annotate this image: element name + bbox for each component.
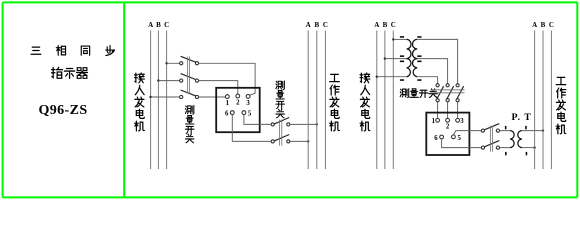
measuring switch S4 (2-pole knife) contacts [481, 129, 499, 149]
wire: S3 poles into box U2 [438, 102, 458, 118]
wire: bus A to T1 primary bottom [377, 76, 407, 78]
wire: terminal 5 to S2 top [232, 115, 270, 142]
measuring switch S2 (2-pole knife) contacts [271, 123, 290, 143]
svg-text:B: B [541, 21, 546, 29]
U1 terminals 6 5 [230, 111, 245, 115]
U2 terminals 1 2 3 [436, 118, 460, 122]
svg-text:3: 3 [460, 118, 464, 125]
switch S1 contacts [180, 62, 199, 99]
synchro indicator box U2 [426, 113, 469, 155]
svg-text:6: 6 [225, 110, 229, 117]
svg-text:B: B [314, 21, 319, 29]
svg-text:C: C [549, 21, 554, 29]
wire: S2 top row to bus B [291, 124, 317, 141]
svg-text:2: 2 [236, 99, 240, 106]
measuring switch S3 (3-pole, vertical) contacts [436, 84, 459, 102]
S2 gang link [280, 120, 282, 146]
wire: terminal 6 to S2 bottom [232, 115, 270, 142]
wire: PT primary bottom to bus A [522, 147, 535, 149]
wire: S1 row1 to terminal 3 [199, 63, 256, 97]
node taps (junction dots) [149, 62, 167, 98]
wire: U2 terminal 5 to S4 top [442, 131, 481, 148]
svg-text:C: C [391, 21, 396, 29]
left bus lines (incoming generator) [377, 31, 394, 170]
wire: taps to switch left contacts [151, 63, 180, 97]
junction dots on right bus [307, 123, 318, 142]
node taps for transformer T1 [376, 38, 395, 78]
transformer T1 primary winding P2 (B-A) [407, 59, 411, 77]
wire: S2 bottom row to bus A [291, 140, 309, 142]
right bus lines (working generator) [308, 31, 325, 170]
switch S1 blades [181, 56, 196, 96]
svg-text:1: 1 [432, 118, 436, 125]
wire: S4 top to PT secondary [500, 131, 510, 148]
potential transformer PT primary winding [518, 131, 522, 148]
svg-text:B: B [383, 21, 388, 29]
svg-text:C: C [323, 21, 328, 29]
S4 blades [484, 124, 499, 147]
vertical label 接入发电机 (incoming generator) [135, 73, 145, 131]
vertical label 測量开关 (measuring switch) under S1 [185, 105, 194, 142]
svg-text:Q96-ZS: Q96-ZS [38, 103, 87, 118]
svg-text:B: B [156, 21, 161, 29]
title text: 三相同步 [31, 46, 114, 56]
U1 terminals 1 2 3 [225, 94, 250, 98]
svg-text:3: 3 [246, 100, 250, 107]
wire: T1 sec mid to S3 pole 2 [417, 59, 447, 84]
svg-text:5: 5 [457, 135, 461, 142]
PT winding terminal ticks [505, 126, 527, 155]
right bus lines (working generator) [535, 31, 552, 170]
svg-text:5: 5 [248, 110, 252, 117]
wire: S1 row2 to terminal 2 [199, 81, 238, 95]
wire: bus B to T1 primary mid [385, 58, 407, 60]
U2 terminals 6 5 [440, 135, 456, 139]
S2 blades [274, 118, 289, 141]
svg-text:6: 6 [434, 135, 438, 142]
potential transformer PT secondary winding [510, 131, 522, 148]
title block divider (green) [123, 2, 125, 197]
svg-text:A: A [374, 21, 379, 29]
wire: bus C to T1 primary top [377, 39, 407, 76]
wire: T1 sec bottom to S3 pole 1 [417, 77, 437, 84]
left bus lines (incoming generator) [151, 31, 167, 170]
svg-text:2: 2 [446, 124, 450, 131]
wire: U2 terminal 6 to S4 bottom [442, 139, 481, 148]
svg-text:1: 1 [226, 100, 230, 107]
svg-text:A: A [306, 21, 311, 29]
svg-text:P. T: P. T [512, 112, 532, 123]
transformer T1 secondary winding S2 [413, 59, 418, 77]
vertical label 測量开关 above S2 [276, 81, 285, 118]
S4 gang link [490, 126, 492, 152]
vertical label 工作发电机 (working generator) [330, 74, 340, 131]
T1 winding polarity ticks [400, 36, 422, 81]
vertical label 接入发电机 [360, 73, 370, 131]
horizontal label 測量开关 [400, 89, 437, 98]
wire: S1 row3 to terminal 1 [199, 96, 226, 98]
wire: PT primary top to bus B [522, 131, 543, 148]
junction dots on right bus [533, 129, 544, 148]
title text: 指示器 [52, 67, 88, 78]
wire: T1 sec top to S3 pole 3 [417, 39, 457, 83]
vertical label 工作发电机 [556, 77, 566, 134]
transformer T1 secondary winding S1 [413, 39, 418, 58]
svg-text:C: C [164, 21, 169, 29]
synchro indicator box U1 [216, 88, 260, 132]
S3 gang link [431, 90, 465, 93]
svg-text:A: A [532, 21, 537, 29]
transformer T1 primary winding P1 (C-B) [407, 39, 418, 76]
switch S1 gang link [187, 57, 189, 94]
svg-text:A: A [148, 21, 153, 29]
S3 blades [437, 86, 464, 99]
